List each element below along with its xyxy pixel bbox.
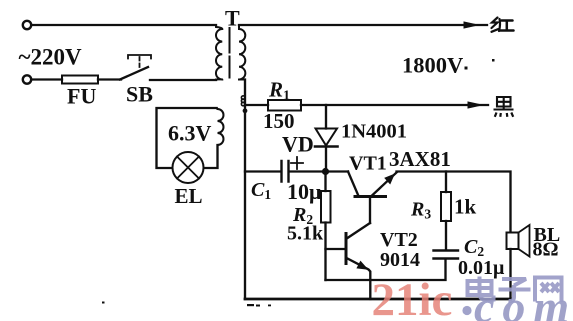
capacitor C1 plates bbox=[282, 161, 289, 182]
svg-text:150: 150 bbox=[263, 109, 295, 133]
lamp EL cross bbox=[177, 157, 199, 179]
resistor R2 bbox=[321, 191, 331, 223]
transformer T secondary winding bbox=[239, 25, 245, 80]
wire secondary top to red output arrow bbox=[239, 24, 487, 26]
watermark hanzi dian-zi-wang bbox=[468, 277, 562, 302]
6.3V winding bbox=[216, 108, 224, 145]
svg-text:1N4001: 1N4001 bbox=[341, 121, 407, 143]
C1 plus sign bbox=[291, 157, 303, 169]
R2 stem from junction bbox=[324, 172, 326, 192]
svg-text:VD: VD bbox=[282, 132, 314, 157]
wire junction to VT1 collector bbox=[326, 170, 348, 172]
watermark .com bbox=[462, 306, 471, 315]
svg-text:8Ω: 8Ω bbox=[533, 239, 559, 261]
wire top from terminal to transformer bbox=[33, 24, 217, 26]
wire fuse to switch bbox=[98, 78, 121, 80]
bottom rail bbox=[245, 298, 511, 301]
wire terminal to fuse bbox=[33, 78, 63, 80]
wire C1 to junction bbox=[290, 170, 326, 172]
svg-text:5.1k: 5.1k bbox=[287, 223, 324, 245]
svg-text:~220V: ~220V bbox=[19, 45, 82, 70]
svg-text:FU: FU bbox=[67, 84, 96, 109]
speaker BL driver rect bbox=[507, 233, 519, 250]
lamp EL circle bbox=[173, 152, 204, 183]
6.3V box left+top bbox=[157, 108, 217, 168]
diode VD stem bottom bbox=[325, 148, 327, 172]
black output arrowhead bbox=[468, 101, 485, 108]
svg-text:21ic: 21ic bbox=[372, 274, 453, 321]
wire R1 to black output arrow bbox=[301, 104, 488, 106]
svg-text:10μ: 10μ bbox=[287, 179, 322, 204]
6.3V box right edge below winding bbox=[204, 145, 218, 168]
terminal top-left bbox=[23, 21, 31, 29]
speaker wire down bbox=[509, 249, 511, 299]
diode VD cathode bar bbox=[315, 145, 338, 148]
svg-text:VT2: VT2 bbox=[380, 229, 418, 251]
small 6.3V tap ticks on rail bbox=[241, 96, 244, 106]
VT2 base bar bbox=[345, 234, 348, 264]
speck near hei bbox=[492, 59, 495, 62]
VT2 collector diagonal bbox=[348, 223, 371, 238]
svg-text:9014: 9014 bbox=[380, 249, 420, 271]
top rail to right bbox=[397, 172, 511, 233]
speaker BL horn bbox=[519, 225, 530, 257]
bottom horizontal wire to C2 bbox=[326, 260, 446, 281]
speck bottom left bbox=[102, 302, 105, 304]
wire C1 from rail bbox=[245, 170, 281, 172]
hanzi red (hong) bbox=[492, 18, 514, 32]
svg-text:EL: EL bbox=[175, 184, 203, 208]
VT2 emitter diagonal bbox=[348, 259, 371, 300]
junction blob on rail bbox=[243, 108, 248, 113]
svg-text:VT1: VT1 bbox=[349, 153, 387, 175]
VT1 base stem down bbox=[369, 198, 371, 223]
resistor R1 bbox=[268, 100, 301, 111]
VT1 collector diagonal bbox=[348, 172, 359, 197]
R3 stem bbox=[445, 172, 447, 193]
svg-text:1800V: 1800V bbox=[402, 53, 463, 78]
capacitor C2 plates bbox=[434, 251, 459, 259]
diode VD triangle bbox=[316, 129, 338, 146]
left rail from secondary bottom down bbox=[244, 80, 246, 300]
terminal lower-left bbox=[23, 75, 31, 83]
resistor R3 bbox=[441, 192, 451, 221]
svg-text:1k: 1k bbox=[454, 195, 477, 219]
VT2 base wire bbox=[326, 248, 345, 250]
WATERMARK bbox=[372, 274, 573, 321]
svg-text:0.01μ: 0.01μ bbox=[458, 257, 505, 279]
VT1 emitter diagonal bbox=[372, 173, 397, 197]
dashes under bottom rail bbox=[247, 304, 254, 306]
VT1 base bar bbox=[355, 195, 386, 198]
speck near 1800V bbox=[465, 67, 468, 70]
transformer T primary winding bbox=[216, 25, 222, 80]
junction dot diode/C1/R2 bbox=[322, 168, 329, 175]
VT1 emitter arrowhead bbox=[384, 174, 395, 185]
switch SB blade bbox=[120, 67, 148, 80]
switch SB dashed stem bbox=[139, 57, 141, 70]
wire switch to transformer primary bbox=[150, 79, 216, 81]
svg-text:3AX81: 3AX81 bbox=[389, 147, 451, 171]
fuse FU bbox=[62, 76, 98, 84]
R2 stem down bbox=[324, 223, 326, 281]
svg-text:6.3V: 6.3V bbox=[168, 121, 212, 146]
transformer core bbox=[229, 28, 231, 78]
switch SB button cap bbox=[128, 55, 151, 59]
diode VD stem top bbox=[325, 105, 327, 129]
R3 stem to C2 bbox=[445, 221, 447, 250]
wire rail to R1 bbox=[245, 104, 268, 106]
hanzi black (hei) bbox=[494, 97, 514, 117]
VT2 emitter arrowhead bbox=[356, 261, 368, 270]
svg-text:T: T bbox=[225, 6, 240, 31]
svg-text:SB: SB bbox=[126, 82, 153, 107]
red output arrowhead bbox=[464, 21, 481, 28]
